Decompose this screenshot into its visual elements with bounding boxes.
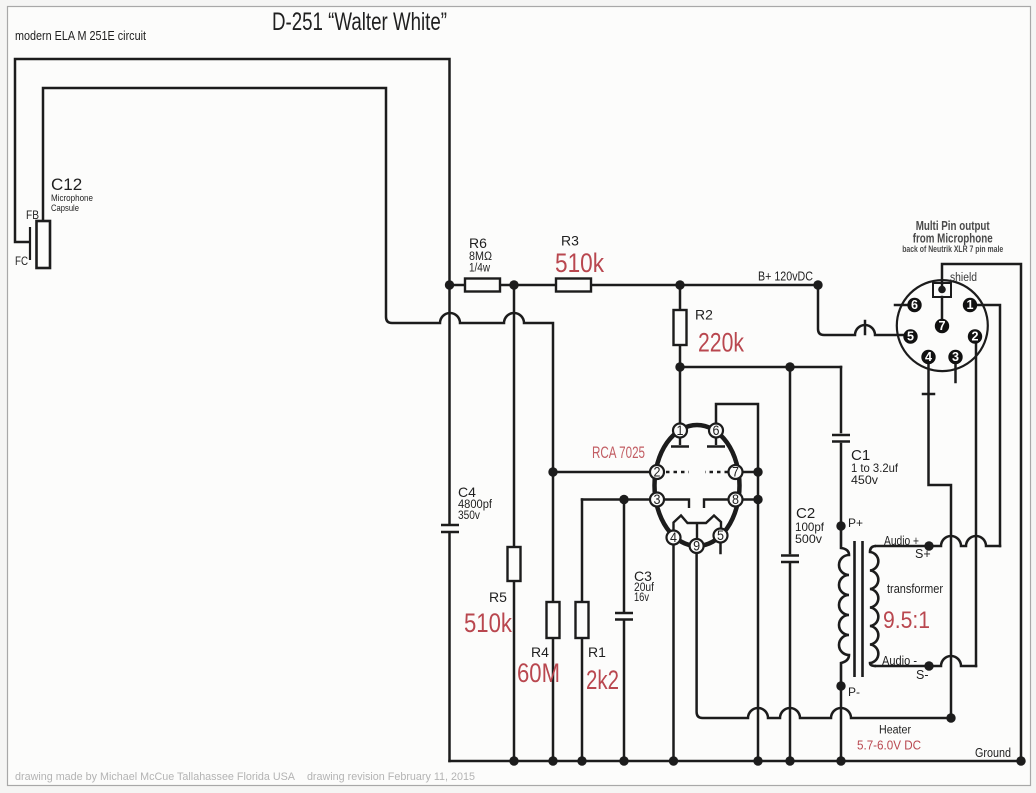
resistor R1 — [576, 602, 620, 695]
node: P- junction — [836, 681, 845, 690]
wire: XLR pin7 to shield square — [941, 297, 944, 319]
wire: audio- secondary with hop — [876, 656, 976, 666]
cathode pin3 — [665, 500, 689, 509]
wire: C1 branch to transformer P+ — [840, 367, 843, 526]
svg-text:6: 6 — [911, 298, 918, 312]
svg-text:3: 3 — [952, 350, 959, 364]
XLR connector J1 — [897, 218, 1003, 371]
svg-text:modern ELA M 251E circuit: modern ELA M 251E circuit — [15, 29, 146, 43]
svg-text:FC: FC — [15, 254, 28, 268]
grid dashes pin7 — [705, 471, 728, 473]
node: R6/R3 junction — [509, 280, 518, 289]
tube pin 4 — [667, 530, 681, 545]
node: cathode junction at C3 — [619, 495, 628, 504]
wire: XLR pin1 to audio+ vertical — [977, 305, 1000, 546]
svg-text:Audio -: Audio - — [882, 654, 917, 668]
svg-text:1: 1 — [967, 298, 974, 312]
tube pin 9 — [690, 539, 704, 554]
plate of pin6 — [707, 439, 725, 447]
capacitor C3 — [615, 568, 655, 620]
node: P+ junction — [836, 521, 845, 530]
svg-text:1/4w: 1/4w — [469, 263, 491, 275]
svg-text:8: 8 — [732, 492, 739, 507]
XLR pin 1 — [963, 298, 977, 312]
wire: R5 branch — [513, 285, 516, 761]
svg-text:450v: 450v — [851, 473, 878, 487]
primary winding — [839, 526, 849, 686]
node: B+ at R2 — [675, 280, 684, 289]
svg-text:S-: S- — [916, 668, 929, 682]
svg-text:Audio +: Audio + — [884, 534, 919, 548]
wire: C3 branch — [623, 500, 626, 762]
wire: shield net top right — [942, 264, 1021, 761]
svg-text:transformer: transformer — [887, 582, 943, 596]
XLR pin 3 — [948, 350, 962, 364]
node: ground rail pin678 — [753, 756, 762, 765]
svg-text:7: 7 — [939, 319, 946, 333]
node: S+ junction — [924, 541, 933, 550]
svg-text:16v: 16v — [634, 592, 649, 604]
svg-text:9: 9 — [693, 539, 700, 554]
svg-text:3: 3 — [654, 492, 661, 507]
node: ground rail R4 — [548, 756, 557, 765]
svg-text:6: 6 — [713, 423, 720, 438]
svg-text:500v: 500v — [795, 532, 822, 546]
node: plate node at C2 — [785, 362, 794, 371]
resistor R3 — [555, 233, 604, 292]
svg-text:P+: P+ — [848, 516, 863, 530]
svg-text:FB: FB — [26, 208, 39, 222]
svg-text:Heater: Heater — [879, 725, 911, 737]
resistor R2 — [674, 307, 745, 358]
node: S- junction — [924, 661, 933, 670]
svg-text:350v: 350v — [458, 510, 480, 522]
svg-text:Capsule: Capsule — [51, 203, 79, 214]
XLR pin 4 — [921, 350, 935, 364]
wire: heater from tube pin9 with hops — [697, 553, 951, 718]
wire: ground rail — [450, 760, 1022, 763]
svg-text:P-: P- — [848, 685, 860, 699]
svg-text:510k: 510k — [464, 608, 512, 638]
tube pin 1 — [673, 423, 687, 438]
svg-text:60M: 60M — [517, 658, 560, 688]
node: ground rail R5 — [509, 756, 518, 765]
svg-text:4: 4 — [925, 350, 932, 364]
wire: crossover tick near XLR pin5 — [864, 321, 867, 334]
wire: XLR pin2 to audio- corner — [975, 343, 978, 666]
wire: tube pin3 cathode to R1/C3 — [582, 498, 650, 501]
capsule C12 — [15, 175, 93, 268]
wire: B+ down to XLR pin 5 with crossover hop — [818, 285, 905, 335]
wire: R2 branch plate node — [680, 285, 841, 423]
svg-text:Ground: Ground — [975, 746, 1011, 760]
svg-text:back of Neutrik XLR 7 pin male: back of Neutrik XLR 7 pin male — [902, 244, 1003, 255]
heater filament — [674, 516, 722, 540]
tube pin 6 — [709, 423, 723, 438]
wire: B+ rail R6/R3 segment — [450, 284, 819, 287]
svg-text:5: 5 — [717, 528, 724, 543]
secondary winding — [870, 546, 878, 666]
node: R6 left junction — [445, 280, 454, 289]
node: ground rail shield corner — [1016, 756, 1025, 765]
svg-text:7: 7 — [732, 465, 739, 480]
wire: tube pin6 loop to ground rail vertical — [716, 404, 758, 761]
svg-text:5.7-6.0V DC: 5.7-6.0V DC — [857, 739, 921, 753]
svg-text:R2: R2 — [695, 307, 713, 323]
node: ground rail C3 — [619, 756, 628, 765]
wire: capsule backplate to grid inner loop — [43, 88, 553, 602]
tube pin 5 — [714, 528, 728, 543]
grid dashes pin2 — [666, 471, 689, 473]
wire: XLR pin6 stub — [895, 304, 907, 307]
wire: tick on XLR pin4 wire — [923, 393, 934, 396]
resistor R5 — [464, 547, 521, 638]
plate of pin1 — [671, 439, 689, 447]
svg-text:5: 5 — [907, 330, 914, 344]
wire: C2 branch — [789, 367, 792, 761]
svg-text:9.5:1: 9.5:1 — [883, 607, 930, 634]
resistor R4 — [517, 602, 560, 688]
svg-text:R3: R3 — [561, 233, 579, 249]
node: ground rail C2 — [785, 756, 794, 765]
wire: tube pin7 to ground vertical — [743, 471, 758, 474]
transformer T1 9.5:1 — [839, 516, 943, 699]
svg-text:2: 2 — [654, 465, 661, 480]
node: pin7 ground junction — [753, 467, 762, 476]
tube pin 8 — [729, 492, 743, 507]
tube pin 2 — [650, 465, 664, 480]
svg-text:R6: R6 — [469, 235, 487, 251]
tube pin 3 — [650, 492, 664, 507]
capacitor C1 — [832, 435, 899, 487]
node: plate node at R2 bottom — [675, 362, 684, 371]
svg-text:510k: 510k — [555, 248, 604, 278]
node: pin8 ground junction — [753, 495, 762, 504]
svg-text:R1: R1 — [588, 644, 606, 660]
svg-text:C12: C12 — [51, 175, 82, 194]
XLR pin 6 — [907, 298, 921, 312]
shield dot — [938, 286, 946, 294]
svg-text:C4: C4 — [458, 484, 476, 500]
wire: grid node down to R4 and ground — [552, 638, 555, 761]
svg-text:D-251 “Walter White”: D-251 “Walter White” — [272, 8, 447, 36]
wire: tube pin4 to ground — [672, 545, 675, 761]
wire: XLR pin3 stub — [954, 364, 957, 382]
XLR pin 7 — [935, 319, 949, 333]
wire: tube pin2 to grid node — [553, 471, 650, 474]
node: grid junction pin2 — [548, 467, 557, 476]
node: ground rail P- — [836, 756, 845, 765]
node: B+ corner to XLR — [813, 280, 822, 289]
wire: audio+ secondary with hops — [876, 536, 1000, 546]
wire: transformer P- to ground rail — [840, 686, 843, 761]
node: ground rail pin4 — [669, 756, 678, 765]
wire: C4 branch — [448, 285, 451, 761]
wire: R1 branch — [581, 500, 584, 762]
svg-text:RCA 7025: RCA 7025 — [592, 443, 645, 462]
tube U1 RCA 7025 — [592, 423, 743, 554]
XLR pin 2 — [968, 329, 982, 343]
XLR pin 5 — [903, 329, 917, 343]
svg-text:1: 1 — [677, 423, 684, 438]
svg-text:2k2: 2k2 — [586, 665, 619, 695]
cathode pin8 — [704, 500, 729, 509]
capacitor C4 — [441, 484, 493, 532]
wire: XLR pin4 jog down to heater junction — [929, 364, 952, 718]
tube pin 7 — [729, 465, 743, 480]
svg-text:8MΩ: 8MΩ — [469, 251, 492, 263]
wire: capsule FC to B+ rail outer loop — [15, 59, 450, 285]
svg-text:B+ 120vDC: B+ 120vDC — [758, 270, 813, 284]
node: ground rail R1 — [577, 756, 586, 765]
svg-text:shield: shield — [950, 272, 977, 284]
resistor R6 — [465, 235, 500, 292]
svg-text:2: 2 — [972, 330, 979, 344]
svg-text:4: 4 — [670, 530, 677, 545]
svg-text:drawing made by Michael McCue: drawing made by Michael McCue Tallahasse… — [15, 771, 475, 783]
wire: tube pin5 stub — [719, 543, 722, 553]
wire: tube pin8 to ground vertical — [743, 498, 758, 501]
svg-text:R5: R5 — [489, 589, 507, 605]
svg-text:220k: 220k — [698, 328, 744, 358]
capacitor C2 — [781, 505, 825, 562]
node: heater junction — [946, 713, 955, 722]
core — [855, 541, 863, 677]
